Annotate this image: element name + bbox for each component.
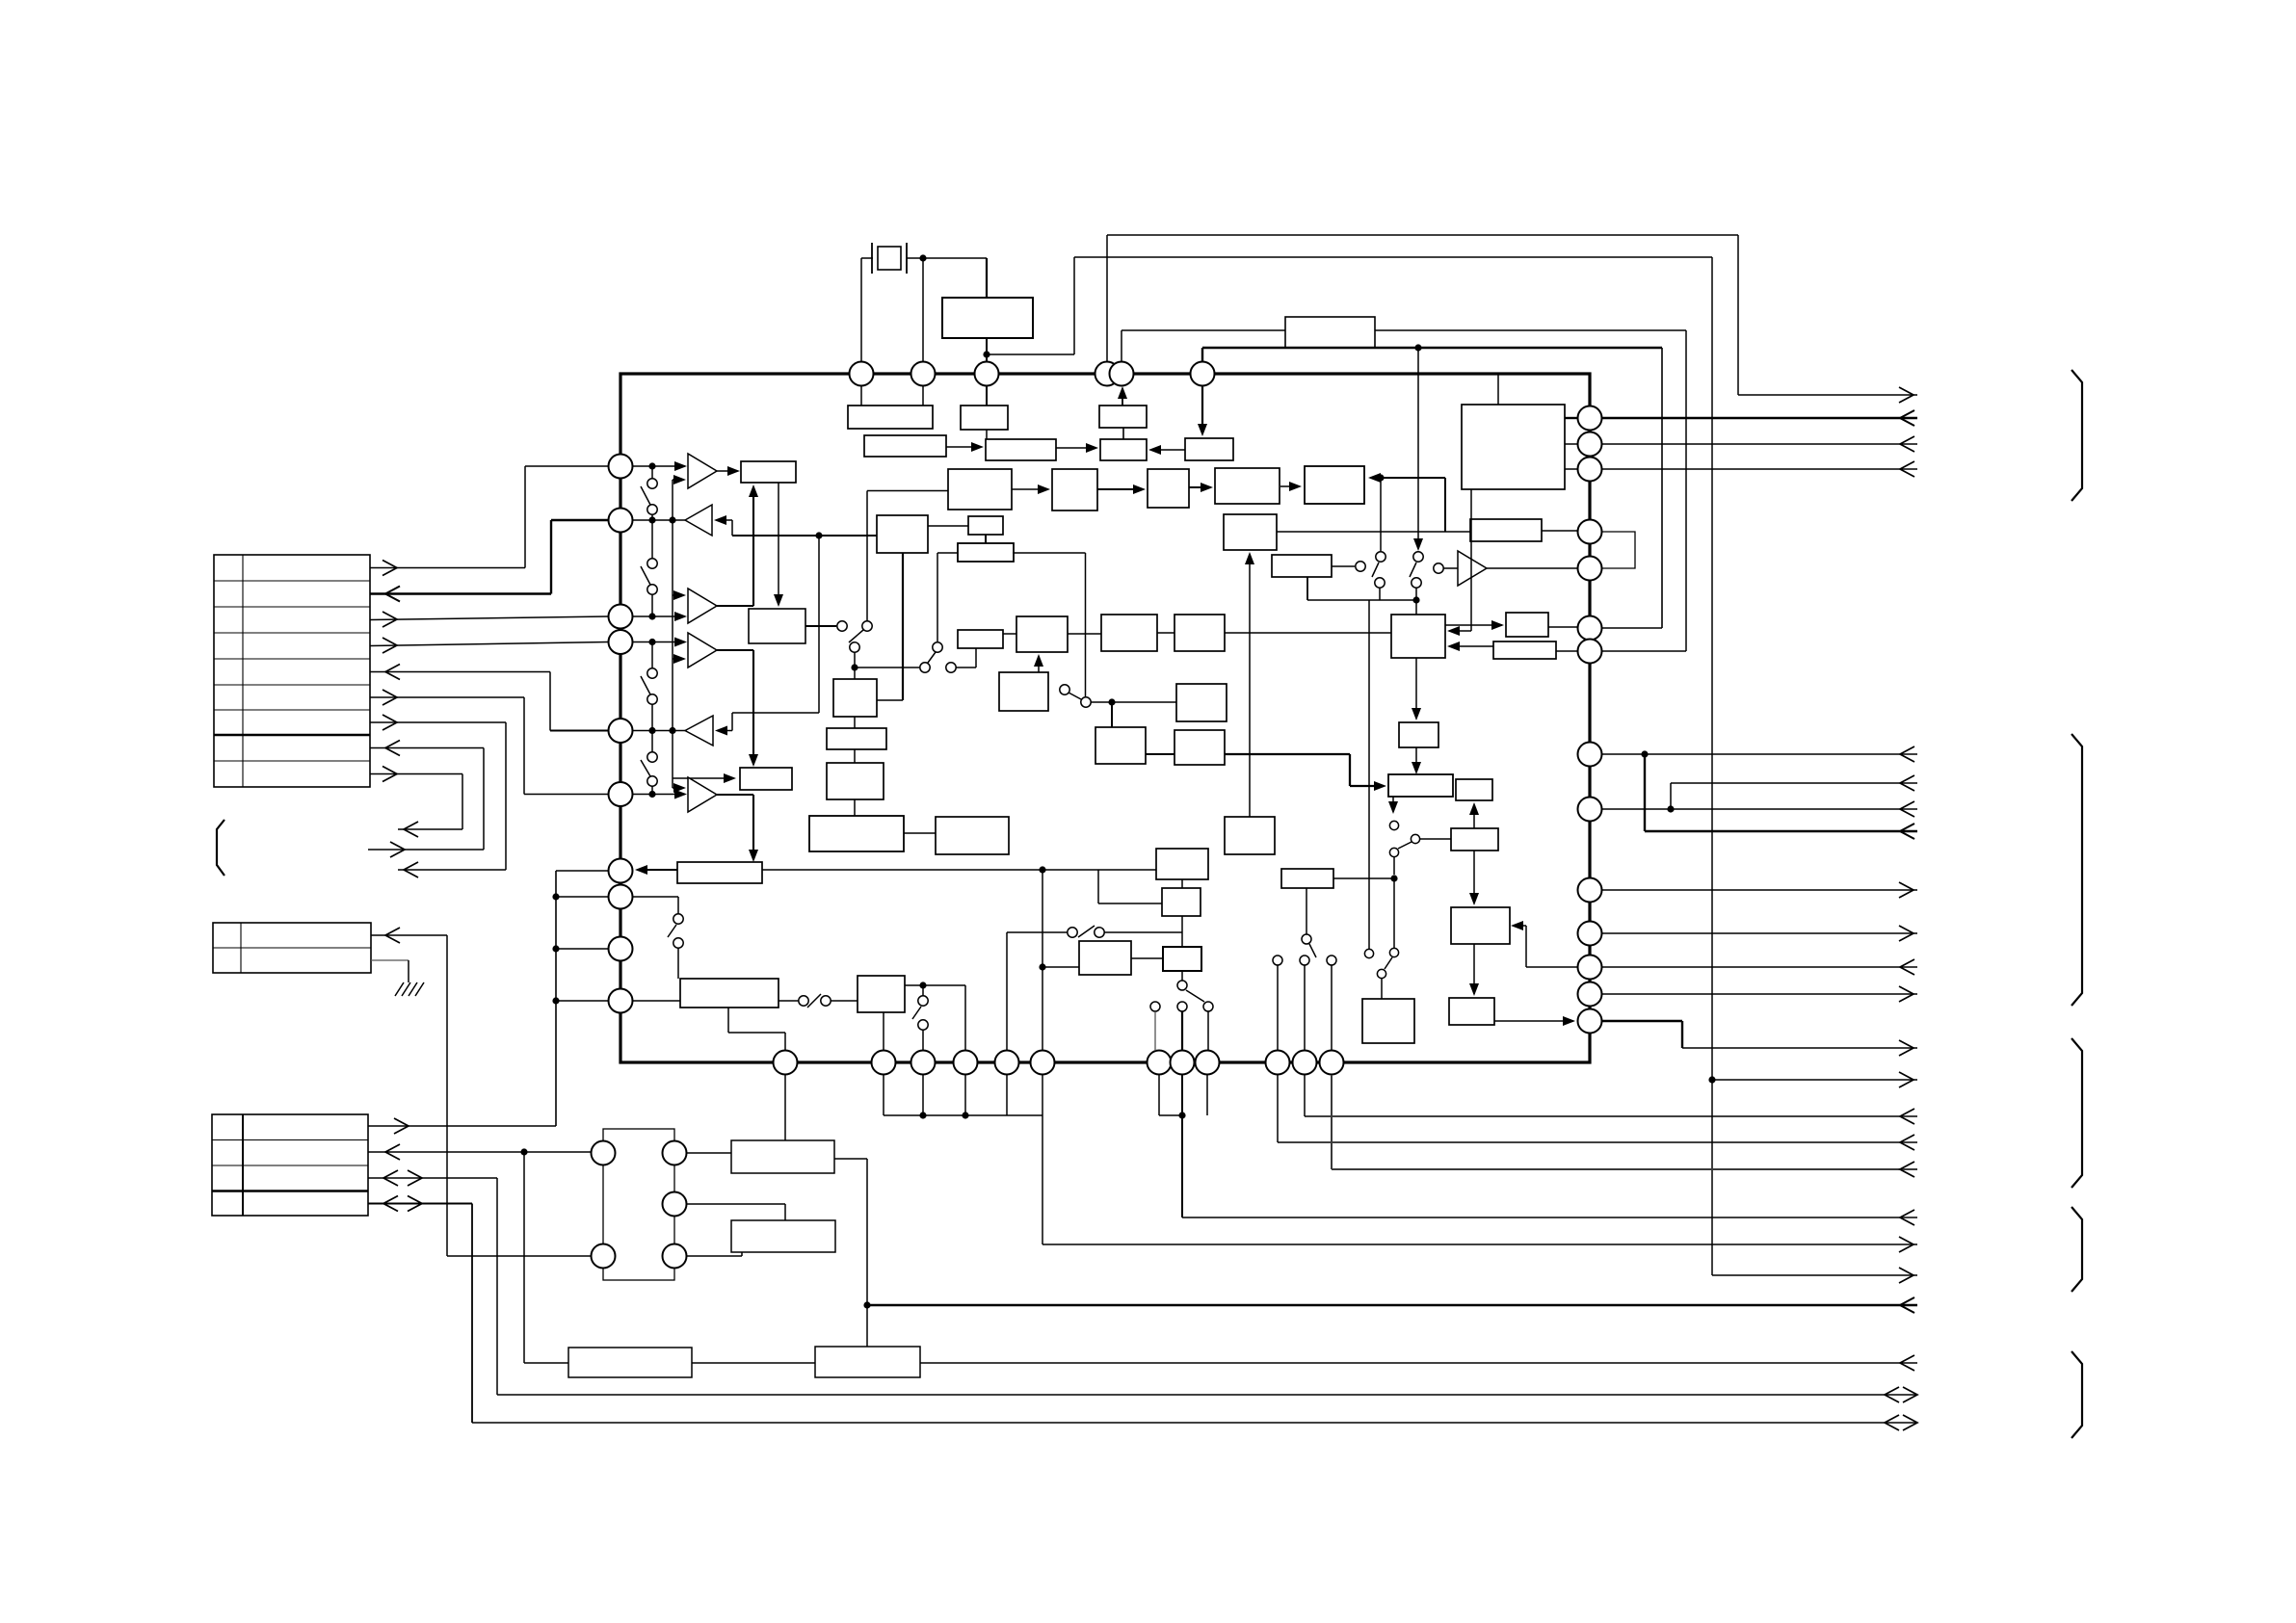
node H dot	[863, 1301, 870, 1308]
pin right y1032	[1578, 982, 1602, 1007]
crystal X1 left electrode	[871, 243, 873, 274]
test pad over pin1227	[1177, 1002, 1187, 1011]
thick wire y863 out	[1645, 830, 1917, 832]
switch SW11 arm	[1385, 957, 1392, 969]
wire CN1 row3 to pin L640	[370, 616, 608, 620]
wire pin1326 down	[1277, 1075, 1279, 1142]
wire F2 left tap	[937, 552, 958, 554]
arrow into B3 left	[673, 777, 732, 779]
pin bottom x958	[911, 1051, 936, 1075]
wire up at x1115	[1073, 257, 1075, 354]
arrow A1 out to B1	[717, 470, 736, 472]
block P2	[1156, 849, 1208, 879]
wire loop y882	[368, 849, 484, 851]
wire pin1203 down	[1158, 1075, 1160, 1115]
block D3	[827, 763, 884, 799]
pin right y1060	[1578, 1009, 1602, 1034]
wire pin1253 down	[1206, 1075, 1208, 1115]
thick wire A4 out drop	[752, 650, 754, 763]
wire pin R3 out	[1602, 468, 1917, 470]
reset IC pin BL	[592, 1244, 616, 1269]
wire vertical x1804 down	[1737, 235, 1739, 395]
reset IC pin BR	[663, 1244, 687, 1269]
test pad over pin1203	[1150, 1002, 1160, 1011]
wire pin1045 up	[1006, 932, 1008, 1051]
wire x704 drop	[677, 897, 679, 914]
wire pin1326 stub	[1277, 965, 1279, 1051]
wire G1-G2	[1003, 633, 1016, 635]
wire pin1032 out	[1602, 993, 1917, 995]
wire P3 left rise	[1097, 870, 1099, 903]
wire K4 out	[1332, 565, 1355, 567]
connector CN3 row line3 thick	[212, 1190, 368, 1191]
pin bottom x1382	[1320, 1051, 1344, 1075]
wire K4 down	[1306, 577, 1308, 600]
wire riser x900 down	[866, 1159, 868, 1347]
wire SW11 down	[1381, 979, 1383, 999]
wire KX down to switch	[866, 491, 868, 622]
wire D3-D4	[854, 799, 856, 816]
thick wire A3 out riser	[752, 489, 754, 606]
wire row9 riser	[462, 774, 463, 830]
block K2	[1305, 466, 1364, 504]
wire D1-D2	[854, 717, 856, 728]
switch SW3 bottom contact	[647, 694, 657, 704]
switch SW9 output contact	[1434, 563, 1443, 573]
block B3	[740, 768, 792, 790]
connector CN1 row line	[214, 632, 370, 634]
block F2	[958, 543, 1014, 562]
wire pin L758 left	[550, 730, 608, 732]
rail x698 mid	[672, 520, 673, 780]
wire RAM top to IC edge	[1497, 374, 1499, 405]
arrow into L4	[1412, 762, 1421, 774]
wire L6 down	[1473, 851, 1475, 903]
wire N1 to pin652	[1548, 626, 1577, 628]
wire K3 to pin552	[1542, 530, 1577, 532]
block L6	[1451, 828, 1498, 851]
wire CN1 row6 right	[370, 696, 524, 698]
node A junction dot	[919, 254, 926, 261]
osc block OSC2	[568, 1348, 692, 1377]
wire RAM drop x1527	[1470, 489, 1472, 631]
node dot x677 y640	[648, 613, 655, 619]
wire row5 riser	[549, 672, 551, 731]
arrow into A2	[714, 515, 726, 525]
bus dot y931	[552, 893, 559, 900]
wire row7 riser	[505, 722, 507, 870]
block C1	[877, 515, 928, 553]
arrow left IN y813	[1900, 775, 1914, 791]
arrow into A4 lower	[673, 658, 680, 660]
arrow K1 to K2	[1280, 485, 1298, 487]
arrow into N4	[1469, 983, 1479, 996]
arrow out row3	[383, 612, 397, 627]
block C2	[749, 609, 805, 643]
amp A4	[688, 633, 717, 668]
test pad over pin1253	[1203, 1002, 1213, 1011]
pin right y590	[1578, 557, 1602, 581]
connector CN3 divider	[242, 1114, 244, 1216]
block XB3	[1099, 406, 1147, 428]
wire jog up x1734	[1670, 783, 1672, 809]
arrow L1 to N1	[1445, 624, 1502, 626]
arrow into A3 upper	[673, 594, 680, 596]
wire pin1382 down	[1331, 1075, 1333, 1169]
wire oscillator box to pin CLK	[986, 338, 988, 363]
test pad over pin1354	[1300, 955, 1309, 965]
wire SW9 join	[1415, 588, 1417, 600]
wire CN1 row4 to pin L666	[370, 642, 608, 646]
wire B1 to C2	[778, 483, 779, 603]
arrow left IN y1264	[1900, 1210, 1914, 1225]
wire pin P5 up to y343	[1121, 330, 1122, 363]
switch SW2 rail	[651, 520, 653, 559]
switch contact below R2	[1177, 981, 1187, 990]
amp A1	[688, 454, 717, 488]
wire top net y267	[1074, 256, 1712, 258]
crystal X1 left lead wire	[861, 257, 873, 259]
switch SW6 contact c	[946, 663, 956, 672]
wire F2 right	[1013, 552, 1086, 554]
pin right y969	[1578, 922, 1602, 946]
pin bottom x1082	[1031, 1051, 1055, 1075]
block I3	[1174, 730, 1225, 765]
wire riser x516	[496, 1178, 498, 1395]
connector CN3 body	[212, 1114, 368, 1216]
arrow into L3	[1412, 708, 1421, 720]
switch SW8 arm	[1372, 563, 1379, 577]
block R1	[1079, 941, 1131, 975]
divider block C	[1100, 439, 1147, 460]
pin bottom x1002	[954, 1051, 978, 1075]
block L1	[1391, 615, 1445, 658]
wire SW5 common drop	[854, 652, 856, 665]
wire pin1004 left	[1526, 966, 1577, 968]
node dot x850 y556	[815, 532, 822, 538]
divider block B	[986, 439, 1056, 460]
arrow right OUT y1088	[1899, 1040, 1913, 1056]
connector CN3 row line2	[212, 1165, 368, 1166]
switch SW1 rail2	[651, 514, 653, 520]
arrow out row4	[383, 638, 397, 653]
arrow into N3	[1469, 893, 1479, 905]
connector CN1 row line	[214, 684, 370, 686]
switch SW12 arm	[1078, 926, 1095, 937]
wire pinL758 row	[632, 730, 685, 732]
crystal X1 right electrode	[906, 243, 908, 274]
wire SW10 to L6	[1420, 838, 1451, 840]
pin right y487	[1578, 458, 1602, 482]
arrow P6 into boxD	[1198, 424, 1207, 436]
node dot x698 y758	[669, 727, 675, 734]
wire pin924 out	[1602, 889, 1917, 891]
wire CN3 row3	[368, 1177, 497, 1179]
node dot x677 y824	[648, 791, 655, 798]
switch SW3 arm	[641, 676, 650, 694]
pin XTAO (top)	[911, 362, 936, 386]
bracket group E	[2072, 1351, 2082, 1438]
wire MR right	[686, 1203, 785, 1205]
arrow in row5	[385, 665, 400, 680]
wire pin917 up to Q1	[883, 1012, 884, 1051]
wire CN1 row8	[370, 747, 484, 749]
wire SW8 join	[1379, 588, 1381, 600]
switch SW14 contact b	[918, 1020, 928, 1030]
wire RAM to pin R1	[1565, 417, 1577, 419]
pin right y552	[1578, 520, 1602, 544]
bracket group C	[2072, 1038, 2082, 1188]
wire row5 into CN1	[370, 671, 550, 673]
wire Q1 chain right	[905, 984, 965, 986]
thick wire I2-I3	[1146, 753, 1174, 755]
wire dot into L1 top	[1415, 600, 1417, 615]
wire jog to pin815	[784, 1033, 786, 1051]
wire y1415 out	[920, 1362, 1917, 1364]
wire pinL484 row	[632, 465, 685, 467]
thick arrow KY to KZ	[1097, 488, 1142, 490]
node dot x677 y540	[648, 516, 655, 523]
connector CN3 row line1	[212, 1139, 368, 1141]
block G4	[1174, 615, 1225, 651]
pin right y783	[1578, 743, 1602, 767]
thick wire pin P6 down	[1201, 385, 1203, 432]
amp U2	[1458, 551, 1487, 586]
bracket group A	[2072, 370, 2082, 501]
wire clock branch down to switch	[1417, 348, 1419, 545]
switch SW11 contact a	[1389, 948, 1398, 956]
wire CN1 row1 to pin L484	[370, 567, 525, 569]
wire y813 out	[1671, 782, 1917, 784]
block N1	[1506, 613, 1548, 637]
switch SW13 contact b	[821, 996, 831, 1006]
wire crystal right down to oscillator box	[986, 258, 988, 298]
amp A5 (left)	[685, 716, 713, 746]
wire pin931 left	[556, 896, 608, 898]
arrow left IN y1186	[1900, 1135, 1914, 1150]
node dot x677 y484	[648, 462, 655, 469]
wire L3 down	[1415, 747, 1417, 771]
wire F2 tap drop	[937, 553, 938, 641]
arrow right OUT y1324	[1899, 1268, 1913, 1283]
switch SW7 contact b	[1081, 697, 1091, 707]
wire riser x544 to OSC2	[523, 1152, 525, 1363]
thick arrow KZ to K1	[1189, 486, 1211, 488]
wire pin1045 tie	[1006, 1075, 1008, 1115]
thick wire pin1060 right	[1602, 1020, 1682, 1022]
arrow left IN y487	[1900, 461, 1914, 477]
bus dot y1039	[552, 997, 559, 1004]
wire pin652 right	[1602, 627, 1662, 629]
pin XTAI (top)	[850, 362, 874, 386]
wire Q1b jog	[728, 1032, 785, 1034]
wire G1 drop	[975, 648, 977, 668]
pin bottom x1354	[1293, 1051, 1317, 1075]
wire MR drop to OSC5	[784, 1204, 786, 1220]
wire pin969 out	[1602, 932, 1917, 934]
pin CLK (top)	[975, 362, 999, 386]
arrow in row2	[385, 587, 400, 602]
arrow out loop y882	[390, 842, 405, 857]
arrow right OUT y1121	[1899, 1072, 1913, 1087]
connector CN1 row line	[214, 734, 370, 736]
pin left y1039	[609, 989, 633, 1013]
pin bottom x815	[774, 1051, 798, 1075]
bracket group B	[2072, 734, 2082, 1006]
pin left y931	[609, 885, 633, 909]
wire vertical x1725 down to pin R4	[1661, 348, 1663, 628]
arrow into A1 lower	[673, 479, 680, 481]
wire into OSC2	[524, 1362, 568, 1364]
switch SW10 contact b	[1389, 848, 1398, 856]
switch SW8 contact a	[1376, 552, 1386, 562]
pin right y652	[1578, 616, 1602, 641]
wire x958 drop	[922, 985, 924, 996]
switch SW9 contact b	[1412, 578, 1421, 588]
thick wire pin1227 down	[1181, 1075, 1183, 1217]
block L3	[1399, 722, 1438, 747]
pin P6 (top)	[1191, 362, 1215, 386]
wire pin1354 down	[1304, 1075, 1306, 1116]
node F dot	[1178, 1112, 1185, 1118]
thick arrow into L4	[1350, 785, 1383, 787]
wire Q0 right	[1333, 877, 1394, 879]
wire row1 to pin	[525, 465, 608, 467]
thick wire row2 into CN1	[370, 592, 551, 594]
wire D1 out	[877, 699, 903, 701]
wire vertical x1750 down to pin R5	[1685, 330, 1687, 651]
wire A2 input drop	[731, 520, 733, 536]
wire y1088 out	[1682, 1047, 1917, 1049]
amp A3	[688, 589, 717, 623]
node dot x887 y693	[851, 664, 858, 670]
node dot x698 y540	[669, 516, 675, 523]
block K4	[1272, 555, 1332, 577]
arrow right OUT y1292	[1899, 1237, 1913, 1252]
thick wire CN3 row4	[368, 1203, 472, 1205]
switch SW4 bottom contact	[647, 776, 657, 786]
wire riser x464	[446, 935, 448, 1256]
thick branch down x1707	[1644, 754, 1646, 831]
wire pin1002 up	[964, 985, 966, 1051]
wire x1082 riser	[1042, 870, 1043, 1051]
thick wire A6 out drop	[752, 795, 754, 858]
wire RAM to pin R3	[1565, 468, 1577, 470]
arrow in loop y861	[404, 822, 418, 837]
wire pinL540 row	[632, 519, 685, 521]
wire SW13 to Q1	[831, 1000, 858, 1002]
pin bottom x1227	[1171, 1051, 1195, 1075]
block N2	[1493, 641, 1556, 659]
test pad over pin1326	[1273, 955, 1282, 965]
connector CN1 row line	[214, 709, 370, 711]
arrow down into switch	[1413, 538, 1423, 551]
block G1	[958, 630, 1003, 648]
pin right y924	[1578, 878, 1602, 903]
node dot x1082 y903	[1039, 866, 1045, 873]
wire L1 down	[1415, 658, 1417, 717]
switch SW1 rail	[651, 466, 653, 479]
crystal X1 body	[878, 247, 901, 270]
switch SW9 contact a	[1413, 552, 1423, 562]
wire row1 riser	[524, 466, 526, 568]
switch SW6 contact b	[933, 642, 942, 652]
wire y1186 out	[1278, 1141, 1917, 1143]
switch SW14 arm	[912, 1007, 921, 1019]
thick jog down x1746	[1681, 1021, 1683, 1048]
switch SW1 bottom contact	[647, 505, 657, 514]
reset IC pin MR	[663, 1192, 687, 1217]
wire x1421 riser	[1368, 600, 1370, 949]
switch SW7 contact a	[1060, 685, 1069, 694]
wire crystal to node A	[907, 257, 987, 259]
node dot x677 y758	[648, 727, 655, 734]
block Q1b	[680, 979, 779, 1008]
wire pin958 up	[922, 1030, 924, 1051]
arrow into A5	[715, 726, 727, 736]
osc block OSC5	[731, 1220, 835, 1252]
thick wire C1 down	[902, 553, 904, 700]
pin right y840	[1578, 798, 1602, 822]
wire D4-D5	[904, 832, 936, 834]
switch SW15 arm	[668, 925, 676, 937]
wire y410 to right arrow	[1738, 394, 1917, 396]
wire D2-D3	[854, 749, 856, 763]
arrow into A4 upper	[674, 638, 687, 647]
left bracket	[217, 820, 224, 876]
pin left y640	[609, 605, 633, 629]
block G3	[1101, 615, 1157, 651]
switch SW5 common contact	[850, 642, 859, 652]
wire x1777 branch right to arrow	[1712, 1079, 1917, 1081]
wire A5 input run	[732, 712, 819, 714]
arrow right OUT y924	[1899, 882, 1913, 898]
pin bottom x917	[872, 1051, 896, 1075]
wire y1264 out	[1182, 1217, 1917, 1218]
wire pin1203 to node F	[1159, 1114, 1182, 1116]
switch SW15 contact a	[673, 914, 683, 924]
block D1	[833, 679, 877, 717]
wire pinL666 row	[632, 641, 685, 643]
block KZ	[1148, 469, 1189, 508]
arrow into A3 lower	[674, 612, 687, 621]
pin P5 (top)	[1110, 362, 1134, 386]
wire BR rise	[741, 1252, 743, 1256]
wire top box to x1750	[1375, 329, 1686, 331]
connector CN2 divider	[240, 923, 242, 973]
arrow N2 into L1	[1449, 645, 1493, 647]
wire P3-R2	[1181, 916, 1183, 947]
amp A6	[688, 777, 717, 812]
connector CN1 row line	[214, 760, 370, 762]
arrow left IN y1355	[1900, 1297, 1914, 1313]
thick wire A6 out	[717, 794, 753, 796]
wire node A down to pin XTAO	[922, 258, 924, 363]
arrow out CN3 row1	[394, 1118, 409, 1134]
block R2	[1163, 947, 1201, 971]
pin left y824.5	[609, 782, 633, 806]
switch SW10 contact a	[1389, 821, 1398, 829]
pin P4 (top)	[1095, 362, 1120, 386]
wire pin1039 left	[556, 1000, 608, 1002]
pin bottom x1326	[1266, 1051, 1290, 1075]
switch SW2 bottom contact	[647, 585, 657, 594]
block I1	[1176, 684, 1227, 721]
arrow bidir y1448	[1885, 1387, 1899, 1402]
wire SW12 left	[1007, 931, 1068, 933]
pin right y461	[1578, 432, 1602, 457]
arrow RAM into L1	[1449, 630, 1471, 632]
